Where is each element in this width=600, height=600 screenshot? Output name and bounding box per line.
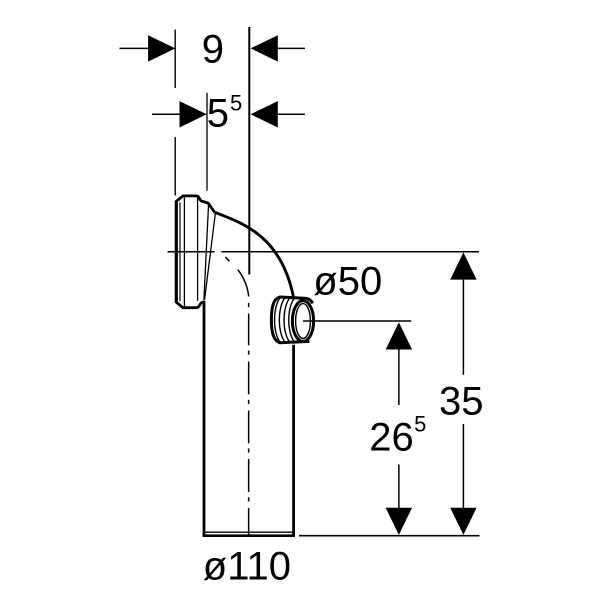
- svg-text:ø50: ø50: [313, 260, 382, 304]
- svg-text:5: 5: [207, 92, 229, 136]
- elbow center line arc dash 2: [238, 270, 249, 297]
- pipe vertical center line (dash-dot): [248, 303, 250, 536]
- dimension 35: upper shaft: [462, 279, 464, 375]
- flange: cone silhouette line B: [205, 214, 216, 300]
- dimension 5.5: left extension line: [206, 93, 208, 191]
- elbow: outer curve: [215, 212, 294, 297]
- side port axis reference line for dimension 26.5: [303, 320, 411, 322]
- dimension 9: right arrowhead: [251, 35, 278, 61]
- svg-text:26: 26: [369, 415, 414, 459]
- bottom reference baseline: [299, 535, 480, 537]
- dimension 5.5: right arrowhead: [251, 101, 278, 127]
- svg-text:5: 5: [230, 91, 242, 116]
- dimension 26.5: lower shaft: [398, 465, 400, 509]
- flange axis center line segment: [168, 251, 215, 253]
- reference line for dimension 35 (inlet axis extended): [221, 251, 479, 253]
- flange: inner ring line 2: [183, 197, 185, 306]
- flange: bottom profile: [176, 302, 205, 308]
- dimension 9: right arrow shaft: [276, 47, 305, 49]
- side port: rib 3: [284, 298, 290, 343]
- flange: inner ring line 1: [179, 203, 181, 302]
- dimension 35: upper arrowhead: [450, 252, 476, 279]
- svg-text:ø110: ø110: [203, 544, 291, 588]
- flange: left face: [175, 201, 178, 303]
- pipe: right edge below side port: [292, 345, 295, 537]
- dimension 35: lower shaft: [462, 424, 464, 508]
- side port: rib 1: [275, 297, 281, 343]
- dimension 9: left arrow shaft: [120, 47, 153, 49]
- flange: inner ring line 3: [197, 197, 199, 301]
- dimension 35: lower arrowhead: [450, 508, 476, 535]
- dimension 5.5: left arrowhead: [180, 101, 207, 127]
- flange: cone silhouette line A: [204, 203, 209, 300]
- dimension 5.5: left arrow shaft: [152, 113, 183, 115]
- pipe: bottom end face: [203, 534, 295, 537]
- svg-text:35: 35: [439, 379, 484, 423]
- side port: front face inner ellipse: [296, 304, 311, 339]
- side port: outer silhouette: [271, 297, 312, 343]
- svg-text:5: 5: [414, 411, 426, 436]
- side port: rib 4: [289, 298, 295, 342]
- dimension 26.5: upper arrowhead: [386, 322, 412, 349]
- dimension 9/5.5: right extension line (pipe axis): [248, 27, 250, 275]
- dimension 26.5: upper shaft: [398, 349, 400, 405]
- side port: front face ellipse: [292, 301, 313, 342]
- pipe: bottom end inner line: [203, 531, 294, 533]
- dimension 9: left arrowhead: [148, 35, 175, 61]
- svg-text:9: 9: [202, 27, 224, 71]
- pipe: left edge: [203, 302, 206, 537]
- side port: rib 2: [279, 297, 285, 342]
- elbow center line arc dash 1: [225, 257, 229, 261]
- dimension 5.5: right arrow shaft: [276, 113, 305, 115]
- dimension 9: left extension line, lower segment: [174, 137, 176, 196]
- flange: top profile: [176, 196, 215, 213]
- dimension 9: left extension line (flange face), upper segment: [174, 30, 176, 89]
- dimension 26.5: lower arrowhead: [386, 508, 412, 535]
